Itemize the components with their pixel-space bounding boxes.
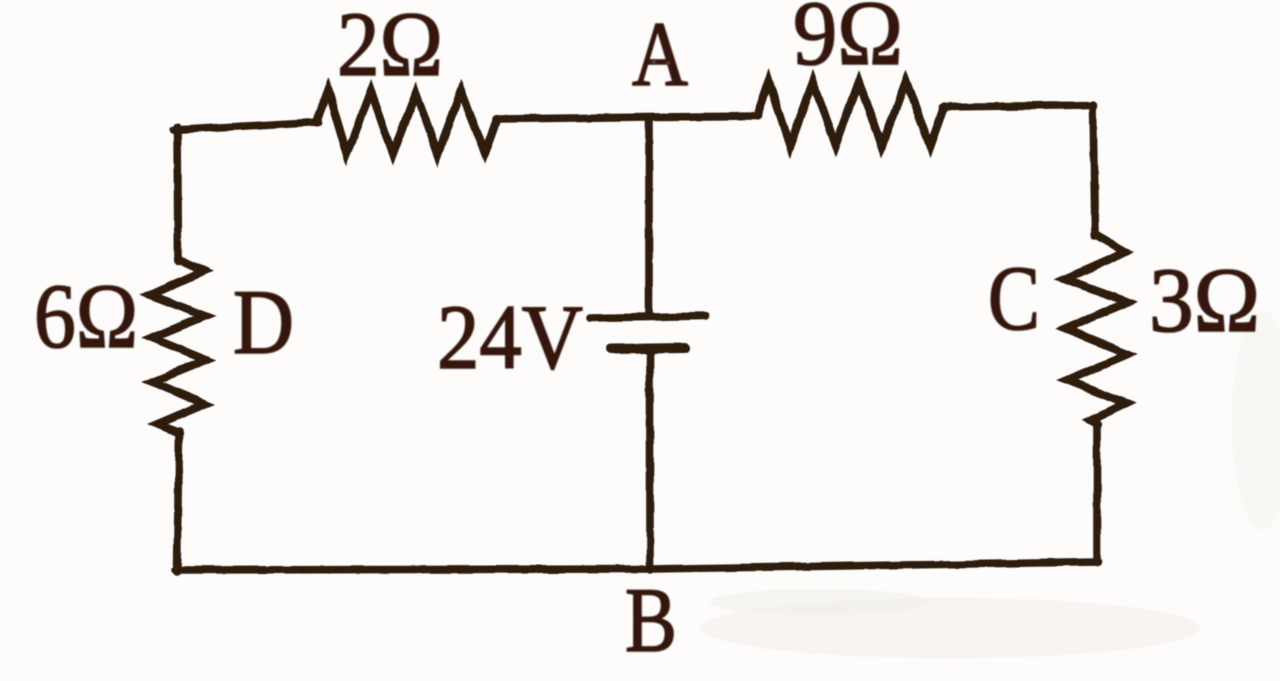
wire bottom (D corner to B) bbox=[175, 569, 650, 570]
scan speck near node A bbox=[652, 60, 657, 65]
wire 2Ω to node A bbox=[496, 117, 650, 119]
svg-text:C: C bbox=[988, 247, 1040, 349]
svg-text:B: B bbox=[625, 569, 677, 671]
resistor 2Ω bbox=[316, 90, 497, 155]
wire top-left (corner to 2Ω) bbox=[173, 122, 318, 130]
svg-text:9Ω: 9Ω bbox=[793, 0, 903, 84]
resistor 3Ω (C) bbox=[1065, 234, 1128, 424]
scan speck near node A right bbox=[666, 61, 670, 65]
node B junction bbox=[650, 562, 1098, 569]
svg-text:6Ω: 6Ω bbox=[34, 265, 138, 367]
svg-text:A: A bbox=[632, 3, 688, 105]
wire left vertical lower bbox=[177, 431, 179, 572]
battery 24V long plate bbox=[590, 316, 706, 318]
svg-text:2Ω: 2Ω bbox=[337, 0, 443, 95]
node A junction bbox=[650, 116, 758, 117]
resistor 9Ω bbox=[757, 81, 944, 146]
battery 24V top lead from node A bbox=[645, 121, 653, 315]
wire 9Ω to top-right corner bbox=[943, 105, 1094, 107]
svg-text:D: D bbox=[233, 271, 294, 373]
svg-text:3Ω: 3Ω bbox=[1149, 249, 1260, 351]
svg-text:24V: 24V bbox=[437, 286, 583, 388]
resistor 6Ω (D) bbox=[150, 259, 206, 433]
wire right vertical upper bbox=[1093, 104, 1095, 236]
battery 24V bottom lead to node B bbox=[646, 352, 654, 570]
battery 24V short plate bbox=[611, 348, 685, 349]
wire left vertical upper bbox=[177, 127, 178, 261]
wire right vertical lower bbox=[1093, 422, 1101, 563]
